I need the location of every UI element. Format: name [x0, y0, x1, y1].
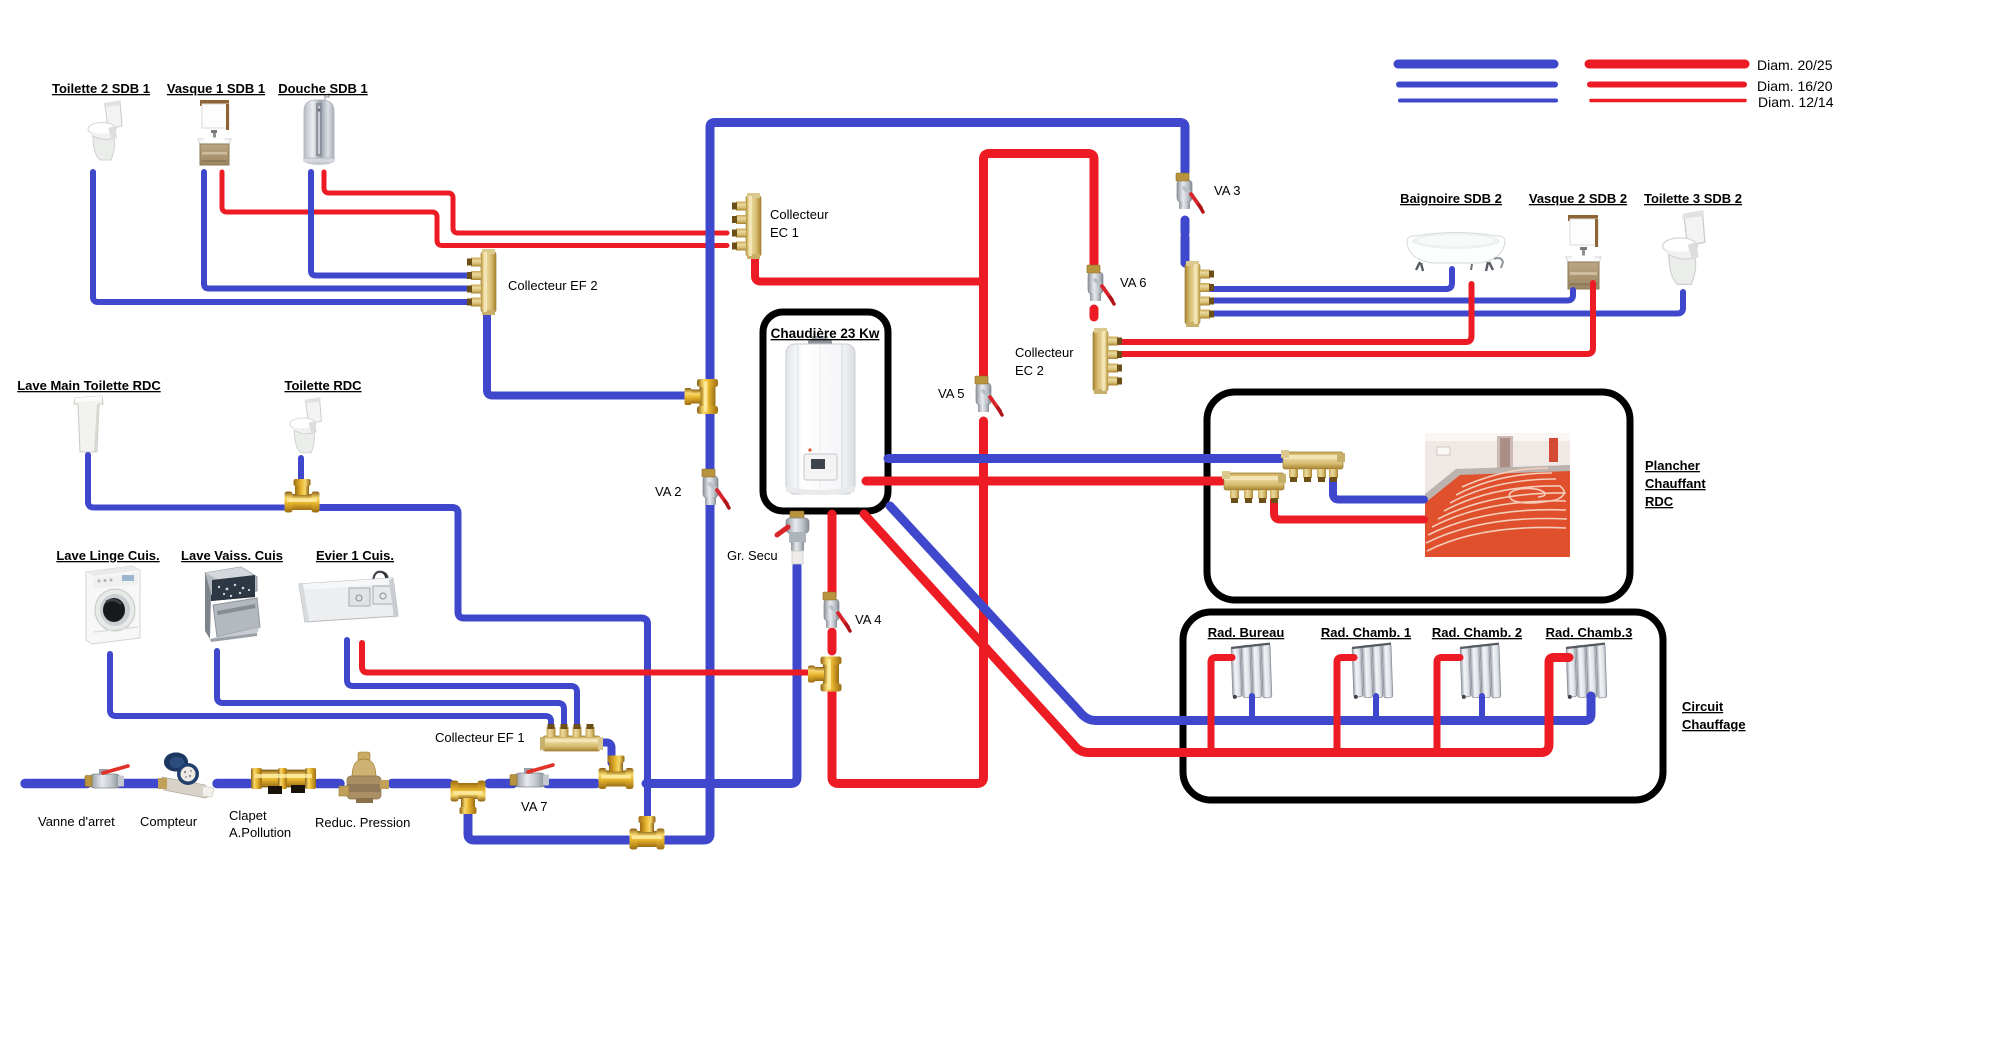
- fitting: Reduc. Pression pressure reducer: [339, 752, 389, 803]
- svg-text:VA 6: VA 6: [1120, 275, 1147, 290]
- svg-text:RDC: RDC: [1645, 494, 1674, 509]
- collector EF 1: [540, 724, 603, 751]
- collector SDB2 cold manifold: [1185, 261, 1214, 327]
- svg-text:VA 7: VA 7: [521, 799, 548, 814]
- pipe: heating flow red diagonal from boiler: [864, 514, 1569, 753]
- collector plancher lower manifold: [1222, 471, 1286, 503]
- svg-text:Collecteur EF 2: Collecteur EF 2: [508, 278, 598, 293]
- fitting: Compteur water meter: [158, 753, 214, 799]
- pipe: hot Collecteur EC 2 to Vasque 2: [1110, 283, 1593, 354]
- pipe: Collecteur EF 2 feed from main riser: [487, 312, 688, 396]
- fixture: radiator Rad. Chamb. 1: [1352, 644, 1393, 699]
- fitting: Clapet A.Pollution check valve: [251, 768, 316, 794]
- svg-text:Collecteur: Collecteur: [1015, 345, 1074, 360]
- valve VA 2: [702, 469, 729, 508]
- pipe: cold main riser and top header to VA 3: [710, 123, 1185, 379]
- pipe: hot header rectangle to VA 6: [984, 154, 1095, 377]
- pipe: hot boiler to VA 4: [828, 514, 837, 596]
- svg-text:Rad. Chamb. 2: Rad. Chamb. 2: [1432, 625, 1522, 640]
- pipe: cold drop from Gr. Secu: [646, 566, 797, 784]
- svg-text:Gr. Secu: Gr. Secu: [727, 548, 778, 563]
- fixture: Baignoire SDB 2: [1407, 233, 1505, 272]
- box: Circuit Chauffage enclosure: [1183, 612, 1663, 800]
- pipe: plancher manifold blue elbow: [1333, 471, 1424, 500]
- fixture: Lave Main Toilette RDC: [74, 396, 103, 452]
- valve VA 3: [1176, 173, 1203, 212]
- pipe: Collecteur EF 1 outlet elbow: [598, 743, 612, 764]
- svg-text:Plancher: Plancher: [1645, 458, 1700, 473]
- fitting: tee on main riser to EF 2: [685, 379, 719, 414]
- svg-text:VA 2: VA 2: [655, 484, 682, 499]
- pipe: cold main riser lower run to bottom header: [676, 414, 710, 840]
- svg-text:Lave Vaiss. Cuis: Lave Vaiss. Cuis: [181, 548, 283, 563]
- svg-text:Chaudière 23 Kw: Chaudière 23 Kw: [771, 326, 880, 341]
- svg-text:Circuit: Circuit: [1682, 699, 1724, 714]
- svg-text:Rad. Chamb.3: Rad. Chamb.3: [1546, 625, 1633, 640]
- fitting: tee below Collecteur EF 1: [599, 756, 634, 790]
- pipe: cold dash below VA 3: [1181, 220, 1190, 263]
- fixture: Toilette RDC: [290, 397, 322, 453]
- pipe: plancher manifold red elbow: [1274, 492, 1424, 520]
- svg-text:Lave Linge Cuis.: Lave Linge Cuis.: [56, 548, 159, 563]
- collector EF 2: [467, 249, 496, 315]
- collector plancher upper manifold: [1281, 450, 1345, 482]
- svg-text:Baignoire SDB 2: Baignoire SDB 2: [1400, 191, 1502, 206]
- collector EC 2: [1093, 328, 1122, 394]
- pipe: cold Lave Main branch: [88, 455, 288, 508]
- fixture: Evier 1 Cuis. sink: [299, 572, 398, 622]
- svg-text:VA 5: VA 5: [938, 386, 965, 401]
- svg-text:Lave Main Toilette RDC: Lave Main Toilette RDC: [17, 378, 161, 393]
- svg-text:Reduc. Pression: Reduc. Pression: [315, 815, 410, 830]
- svg-text:Toilette 3 SDB 2: Toilette 3 SDB 2: [1644, 191, 1742, 206]
- svg-text:Compteur: Compteur: [140, 814, 198, 829]
- svg-text:Collecteur: Collecteur: [770, 207, 829, 222]
- fitting: Gr. Secu safety group: [777, 511, 809, 564]
- fixture: Lave Vaiss. Cuis dishwasher: [205, 567, 260, 642]
- pipe: cold Lave Linge branch: [110, 654, 551, 727]
- pipe: cold feeds to Baignoire Vasque2 Toilette3: [1203, 269, 1683, 314]
- fitting: tee bottom interconnect: [630, 816, 665, 850]
- valve VA 5: [975, 376, 1002, 415]
- valve Vanne d'arret: [85, 766, 128, 788]
- svg-text:Vanne d'arret: Vanne d'arret: [38, 814, 115, 829]
- fixture: radiator Rad. Bureau: [1231, 644, 1272, 699]
- legend: pipe samples: [1398, 60, 1554, 69]
- pipe: hot water Douche SDB 1 branch: [324, 172, 727, 233]
- svg-text:Diam. 16/20: Diam. 16/20: [1757, 78, 1833, 94]
- svg-text:Douche SDB 1: Douche SDB 1: [278, 81, 368, 96]
- svg-text:Vasque 2 SDB 2: Vasque 2 SDB 2: [1529, 191, 1627, 206]
- pipe: cold Toilette RDC stub: [298, 458, 304, 492]
- pipe: hot supply to plancher manifold y481: [866, 477, 1222, 486]
- pipe: cold Evier branch: [347, 640, 577, 727]
- svg-text:Diam. 20/25: Diam. 20/25: [1757, 57, 1833, 73]
- svg-text:VA 4: VA 4: [855, 612, 882, 627]
- svg-text:Vasque 1 SDB 1: Vasque 1 SDB 1: [167, 81, 265, 96]
- svg-text:Diam. 12/14: Diam. 12/14: [1758, 94, 1834, 110]
- fixture: radiator Rad. Chamb. 2: [1460, 644, 1501, 699]
- pipe: heating return blue diagonal from boiler: [890, 506, 1591, 721]
- svg-text:Rad. Bureau: Rad. Bureau: [1208, 625, 1285, 640]
- svg-text:Evier 1 Cuis.: Evier 1 Cuis.: [316, 548, 394, 563]
- svg-text:Collecteur EF 1: Collecteur EF 1: [435, 730, 525, 745]
- pipe: cold Lave Vaiss. branch: [217, 651, 564, 727]
- valve VA 4: [823, 592, 850, 631]
- valve VA 7: [510, 765, 553, 787]
- pipe: radiator return stubs: [1252, 696, 1482, 716]
- fitting: tee Toilette RDC: [285, 479, 320, 513]
- pipe: hot outlet of Collecteur EC 1: [755, 257, 979, 282]
- valve VA 6: [1087, 265, 1114, 304]
- pipe: bottom interconnect line y840: [468, 806, 674, 840]
- svg-text:Toilette 2 SDB 1: Toilette 2 SDB 1: [52, 81, 150, 96]
- fixture: Lave Linge Cuis. washing machine: [86, 566, 140, 644]
- fixture: Chaudiere boiler unit: [786, 336, 855, 495]
- svg-text:Chauffant: Chauffant: [1645, 476, 1706, 491]
- pipe: hot riser VA 5 line lower section: [832, 421, 984, 784]
- box: Plancher Chauffant RDC enclosure: [1207, 392, 1630, 600]
- pipe: cold water Vasque 1 branch: [204, 172, 476, 289]
- pipe: cold water Toilette 2 branch: [93, 172, 476, 302]
- box: Chaudiere enclosure: [763, 312, 888, 511]
- fixture: Toilette 2 SDB 1: [88, 100, 122, 160]
- pipe: cold service main dashed line: [25, 779, 596, 789]
- fixture: Douche SDB 1: [303, 94, 335, 165]
- fixture: Vasque 2 SDB 2: [1566, 215, 1601, 289]
- fitting: tee service line branch down: [451, 781, 486, 815]
- svg-text:EC 2: EC 2: [1015, 363, 1044, 378]
- fixture: radiator Rad. Chamb.3: [1566, 644, 1607, 699]
- pipe: hot dash below VA 4: [828, 632, 837, 651]
- pipe: hot dash below VA 6: [1090, 309, 1099, 317]
- pipe: cold run from RDC tee to bottom tee: [316, 508, 648, 825]
- svg-text:Rad. Chamb. 1: Rad. Chamb. 1: [1321, 625, 1411, 640]
- fixture: Toilette 3 SDB 2: [1663, 210, 1705, 284]
- pipe: cold supply to boiler circuit y458: [888, 454, 1281, 463]
- pipe: hot Collecteur EC 2 to Baignoire: [1110, 284, 1472, 342]
- svg-text:EC 1: EC 1: [770, 225, 799, 240]
- svg-text:Clapet: Clapet: [229, 808, 267, 823]
- svg-text:A.Pollution: A.Pollution: [229, 825, 291, 840]
- collector EC 1: [732, 193, 761, 259]
- svg-text:Chauffage: Chauffage: [1682, 717, 1746, 732]
- pipe: cold water Douche branch: [311, 172, 476, 276]
- photo: plancher chauffant floor: [1425, 433, 1570, 557]
- fitting: tee hot VA 4 line: [808, 657, 842, 692]
- fixture: Vasque 1 SDB 1: [198, 100, 231, 165]
- svg-text:Toilette RDC: Toilette RDC: [284, 378, 362, 393]
- pipe: hot water Vasque 1 branch: [222, 172, 727, 246]
- pipe: radiator flow risers: [1211, 658, 1460, 749]
- pipe: hot Evier branch: [362, 643, 812, 673]
- svg-text:VA 3: VA 3: [1214, 183, 1241, 198]
